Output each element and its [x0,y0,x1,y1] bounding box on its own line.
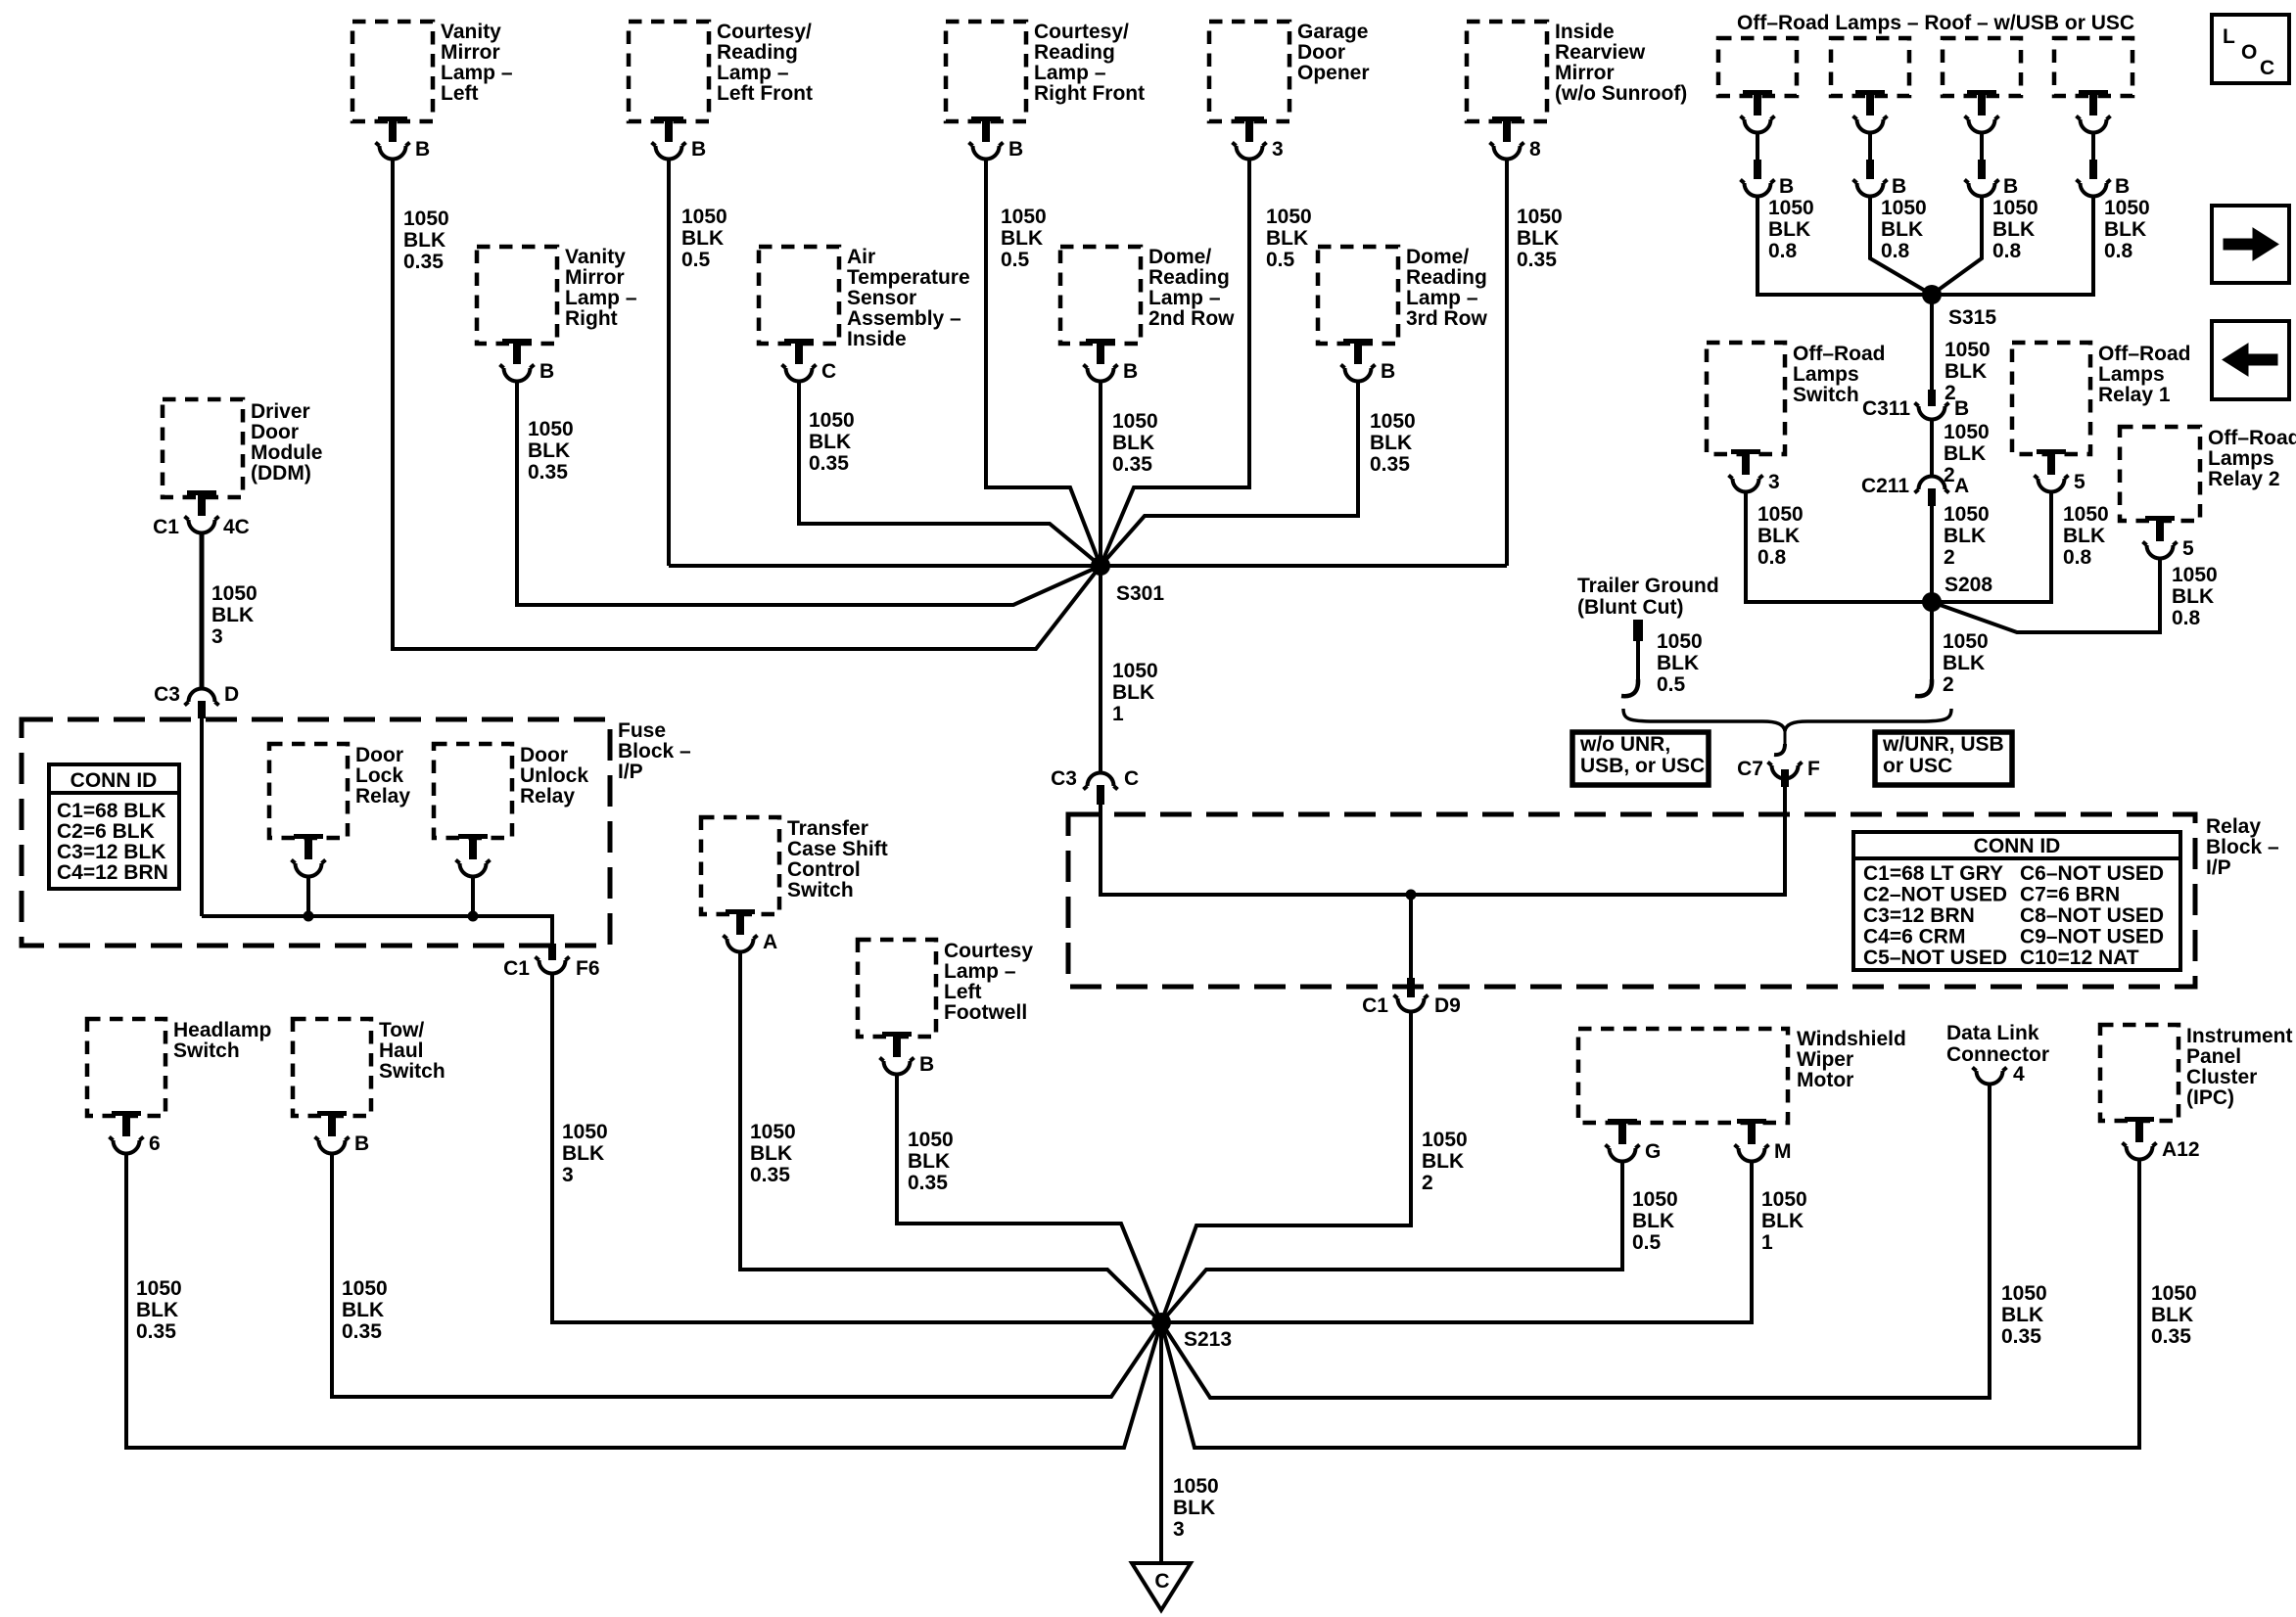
connector B of Courtesy/Reading Lamp - Right Front [969,116,1024,161]
junction dot door unlock [468,911,479,922]
wire label 1050 BLK 3 (fuse block) [562,1121,608,1186]
wire Air Temperature Sensor to S301 [799,383,1101,566]
connector B of Courtesy Lamp Left Footwell [880,1032,935,1076]
svg-text:M: M [1774,1140,1792,1163]
label Fuse Block - I/P [618,719,691,783]
wire label 1050 BLK 2 (C311-C211) [1944,421,1990,486]
wire label 1050 BLK 0.8 (roof lamp 3) [1992,197,2038,262]
wire Vanity Mirror Lamp Right to S301 [517,383,1101,605]
svg-text:Off–Road Lamps – Roof – w/USB: Off–Road Lamps – Roof – w/USB or USC [1737,12,2134,34]
svg-text:C1: C1 [1362,994,1388,1017]
svg-text:C3: C3 [154,683,180,706]
svg-text:1050BLK0.35: 1050BLK0.35 [1112,410,1158,476]
svg-text:5: 5 [2074,471,2085,493]
component Vanity Mirror Lamp - Left [352,21,513,121]
svg-text:S208: S208 [1945,574,1992,596]
component Tow/Haul Switch [293,1019,445,1116]
LOC legend box [2212,15,2289,83]
svg-text:B: B [1954,397,1969,420]
connector B of Tow/Haul Switch [315,1111,370,1155]
label Relay Block - I/P [2206,815,2279,879]
junction dot relay block [1406,890,1417,901]
svg-text:B: B [354,1132,369,1155]
svg-text:3: 3 [1768,471,1780,493]
inline connector C3 C [1051,767,1139,805]
svg-text:B: B [691,138,706,161]
connector B of Dome/Reading Lamp - 3rd Row [1341,339,1396,383]
svg-text:B: B [539,360,554,383]
svg-text:1050BLK0.35: 1050BLK0.35 [809,409,855,475]
component Driver Door Module (DDM) [163,399,323,497]
wire C1 D9 to S213 [1161,1013,1411,1322]
wire roof lamp 1 inline [1756,134,1759,161]
component Off-Road Roof Lamp 1 [1718,38,1797,96]
svg-text:1050BLK0.35: 1050BLK0.35 [2001,1282,2047,1348]
connector 4 of Data Link Connector [1973,1063,2026,1086]
component Off-Road Roof Lamp 2 [1831,38,1909,96]
component Off-Road Lamps Switch [1707,343,1886,454]
wire IPC A12 to S213 [1161,1161,2139,1448]
connector B of Vanity Mirror Lamp - Left [376,116,431,161]
splice S315 [1922,285,1996,329]
wire roof lamp 3 inline [1980,134,1984,161]
label Data Link Connector [1946,1022,2049,1066]
wire C3 C to relay block bus [1101,785,1785,895]
junction dot door lock [304,911,314,922]
wire fuse block ground bus [202,916,552,946]
connector of Door Unlock Relay [456,834,491,877]
wire S213 to ground triangle C [1159,1322,1163,1563]
connector 3 of Garage Door Opener [1233,116,1284,161]
wire S208 down to option brace [1915,611,1932,696]
connector of Door Lock Relay [292,834,326,877]
component Courtesy Lamp - Left Footwell [858,940,1033,1037]
wire Courtesy Lamp Left Front to S301 [667,161,671,566]
svg-text:O: O [2241,41,2257,64]
wire S315 to C311 [1930,295,1934,391]
wire label 1050 BLK 0.35 (IPC) [2151,1282,2197,1348]
wire label 1050 BLK 0.35 (vanity left) [403,208,449,273]
svg-text:CONN ID: CONN ID [1974,835,2061,857]
svg-text:S213: S213 [1184,1328,1232,1351]
svg-text:D9: D9 [1434,994,1461,1017]
svg-text:L: L [2223,25,2235,48]
component Dome/Reading Lamp - 2nd Row [1060,246,1235,344]
label Off-Road Lamps - Roof - w/USB or USC [1737,12,2134,34]
component Courtesy/Reading Lamp - Right Front [946,21,1145,121]
wire Dome Lamp 2nd Row to S301 [1099,383,1102,566]
connector C1 F6 of fuse block [503,944,599,980]
svg-text:B: B [415,138,430,161]
connector A12 of IPC [2123,1117,2200,1161]
svg-text:F: F [1807,758,1820,780]
svg-text:3: 3 [1272,138,1284,161]
wire label 1050 BLK 0.35 (headlamp) [136,1277,182,1343]
svg-text:C: C [1124,767,1139,790]
wire roof lamp 1 to S315 [1757,198,1932,295]
wire Off-Road Lamps Relay 2 to S208 [1932,560,2160,632]
svg-text:6: 6 [149,1132,161,1155]
relay block CONN ID table [1853,832,2180,970]
svg-text:CONN ID: CONN ID [70,769,158,792]
relay block dashed box [1068,814,2195,987]
connector B of Courtesy/Reading Lamp - Left Front [652,116,707,161]
wire label 1050 BLK 2 (S315) [1945,339,1991,404]
wire label 1050 BLK 3 (DDM) [211,582,258,648]
svg-text:S315: S315 [1948,306,1996,329]
svg-text:8: 8 [1529,138,1541,161]
right arrow box [2212,206,2289,283]
svg-text:C: C [2260,57,2274,79]
wire label 1050 BLK 0.5 (courtesy left front) [681,206,727,271]
svg-text:C: C [1154,1570,1169,1593]
connector G of Windshield Wiper Motor [1606,1119,1662,1163]
svg-text:C311: C311 [1862,397,1910,420]
wire Transfer Case Switch to S213 [740,953,1161,1322]
svg-text:4C: 4C [223,516,250,538]
connector (upper) of roof lamp 4 [2077,90,2111,133]
component Garage Door Opener [1209,21,1370,121]
svg-text:1050BLK0.35: 1050BLK0.35 [342,1277,388,1343]
ground reference triangle C [1132,1563,1191,1610]
wire label 1050 BLK 0.8 (off-road switch) [1757,503,1804,569]
connector B of roof lamp 4 [2077,160,2131,198]
wire blunt cut [1621,641,1638,696]
svg-text:1050BLK0.35: 1050BLK0.35 [136,1277,182,1343]
wire label 1050 BLK 0.8 (roof lamp 2) [1881,197,1927,262]
wire roof lamp 3 to S315 [1932,198,1982,295]
option box w/UNR USB or USC [1875,732,2012,785]
wire label 1050 BLK 0.35 (air temp) [809,409,855,475]
inline connector C7 F [1737,731,1820,787]
wire label 1050 BLK 0.8 (relay 1) [2063,503,2109,569]
component Door Lock Relay [269,744,410,838]
component Off-Road Lamps Relay 1 [2012,343,2191,454]
component Inside Rearview Mirror [1467,21,1687,121]
component Transfer Case Shift Control Switch [701,817,888,914]
wire C1 F6 to S213 [552,975,1156,1322]
wire roof lamp 2 to S315 [1870,198,1932,295]
svg-text:A12: A12 [2162,1138,2200,1161]
connector (upper) of roof lamp 3 [1965,90,1999,133]
fuse block CONN ID table [49,764,179,889]
svg-text:1050BLK0.35: 1050BLK0.35 [908,1129,954,1194]
wire Vanity Mirror Lamp Left to S301 [393,161,1101,649]
connector 5 of Off-Road Lamps Relay 1 [2035,449,2086,493]
wire S301 horizontal bus [669,564,1507,568]
wire roof lamp 4 inline [2091,134,2095,161]
component Off-Road Roof Lamp 4 [2054,38,2132,96]
wire Off-Road Lamps Relay 1 to S208 [1932,493,2051,602]
wire Headlamp Switch to S213 [126,1155,1161,1448]
splice S208 [1922,574,1992,612]
connector B of roof lamp 1 [1741,160,1795,198]
wire label 1050 BLK 3 (S213 down) [1173,1475,1219,1541]
svg-text:B: B [1779,175,1794,198]
svg-text:1050BLK0.35: 1050BLK0.35 [403,208,449,273]
svg-text:A: A [1954,475,1969,497]
wire label 1050 BLK 0.35 (dome 3rd row) [1370,410,1416,476]
svg-text:B: B [919,1053,934,1076]
connector C1 D9 of relay block [1362,978,1461,1017]
wire relay block to C1 D9 [1409,895,1413,978]
wire label 1050 BLK 1 [1112,660,1158,725]
wire Door Lock Relay to bus [306,878,310,916]
svg-text:1050BLK0.35: 1050BLK0.35 [1517,206,1563,271]
connector B of Dome/Reading Lamp - 2nd Row [1084,339,1139,383]
svg-text:B: B [1892,175,1906,198]
component Door Unlock Relay [434,744,588,838]
connector 6 of Headlamp Switch [110,1111,161,1155]
left arrow box [2212,321,2289,399]
component Vanity Mirror Lamp - Right [477,246,637,344]
svg-text:Data LinkConnector: Data LinkConnector [1946,1022,2049,1066]
svg-text:C3: C3 [1051,767,1077,790]
wire S301 to C3 C [1099,566,1102,771]
wire label 1050 BLK 0.35 (rearview) [1517,206,1563,271]
connector (upper) of roof lamp 1 [1741,90,1775,133]
wire label 1050 BLK 2 (below S208) [1943,630,1989,696]
connector B of roof lamp 2 [1853,160,1907,198]
wire label 1050 BLK 0.5 (blunt cut) [1657,630,1703,696]
wire Courtesy Lamp Footwell to S213 [897,1076,1161,1322]
wire label 1050 BLK 0.35 (transfer case) [750,1121,796,1186]
component Courtesy/Reading Lamp - Left Front [629,21,813,121]
wire Door Unlock Relay to bus [471,878,475,916]
component Off-Road Lamps Relay 2 [2120,427,2296,521]
svg-text:B: B [1123,360,1138,383]
wire roof lamp 4 to S315 [1932,198,2093,295]
component Headlamp Switch [87,1019,271,1116]
wire Wiper Motor M to S213 [1166,1163,1752,1322]
connector 3 of Off-Road Lamps Switch [1729,449,1780,493]
wire roof lamp 2 inline [1868,134,1872,161]
inline connector C311 B [1862,390,1969,420]
wire label 1050 BLK 0.5 (wiper G) [1632,1188,1678,1254]
wire label 1050 BLK 0.35 (dome 2nd row) [1112,410,1158,476]
connector B of Vanity Mirror Lamp - Right [500,339,555,383]
wire label 1050 BLK 0.35 (tow/haul) [342,1277,388,1343]
wire Courtesy Lamp Right Front to S301 [986,161,1101,566]
wire label 1050 BLK 0.35 (vanity right) [528,418,574,484]
connector 8 of Inside Rearview Mirror [1490,116,1542,161]
wire label 1050 BLK 0.8 (roof lamp 1) [1768,197,1814,262]
component Off-Road Roof Lamp 3 [1943,38,2021,96]
option box w/o UNR USB or USC [1572,732,1709,785]
svg-text:1050BLK0.35: 1050BLK0.35 [2151,1282,2197,1348]
connector (upper) of roof lamp 2 [1853,90,1888,133]
wire label 1050 BLK 0.35 (footwell) [908,1129,954,1194]
svg-text:C1: C1 [503,957,530,980]
wire Wiper Motor G to S213 [1161,1163,1622,1322]
component Air Temperature Sensor Assembly - Inside [759,246,970,350]
svg-text:C211: C211 [1861,475,1909,497]
svg-text:A: A [763,931,777,953]
svg-text:D: D [224,683,239,706]
svg-text:5: 5 [2182,537,2194,560]
wire label 1050 BLK 1 (wiper M) [1761,1188,1807,1254]
svg-text:1050BLK0.35: 1050BLK0.35 [528,418,574,484]
wire Data Link Connector to S213 [1161,1086,1990,1398]
svg-text:B: B [2115,175,2130,198]
wire C3 D into fuse block [200,718,204,916]
label Trailer Ground (Blunt Cut) [1577,575,1719,619]
svg-text:4: 4 [2013,1063,2025,1086]
wire Garage Door Opener to S301 [1101,161,1249,566]
wire label 1050 BLK 0.5 (courtesy right front) [1001,206,1047,271]
svg-text:C1: C1 [153,516,179,538]
wire DDM to C3 D [200,534,205,688]
component Instrument Panel Cluster (IPC) [2100,1025,2293,1121]
wire label 1050 BLK 2 (C211-S208) [1944,503,1990,569]
splice S301 [1091,556,1164,605]
connector C1 4C of DDM [153,490,250,538]
svg-text:B: B [1381,360,1395,383]
svg-text:C1=68 BLKC2=6 BLKC3=12 BLKC4=1: C1=68 BLKC2=6 BLKC3=12 BLKC4=12 BRN [57,800,168,884]
component Windshield Wiper Motor [1578,1028,1906,1123]
wire label 1050 BLK 2 (C1 D9) [1422,1129,1468,1194]
svg-text:1050BLK0.35: 1050BLK0.35 [750,1121,796,1186]
wire Inside Rearview Mirror to S301 [1505,161,1509,566]
inline connector C211 A [1861,475,1969,506]
wire Off-Road Lamps Switch to S208 [1746,493,1932,602]
connector B of roof lamp 3 [1965,160,2019,198]
svg-text:1050BLK0.35: 1050BLK0.35 [1370,410,1416,476]
svg-text:S301: S301 [1116,582,1164,605]
svg-text:F6: F6 [576,957,600,980]
splice S213 [1151,1313,1232,1351]
connector M of Windshield Wiper Motor [1735,1119,1792,1163]
svg-text:G: G [1645,1140,1661,1163]
svg-text:B: B [1008,138,1023,161]
wire label 1050 BLK 0.8 (relay 2) [2172,564,2218,629]
connector 5 of Off-Road Lamps Relay 2 [2143,516,2195,560]
wire Dome Lamp 3rd Row to S301 [1101,383,1358,566]
connector A of Transfer Case Switch [724,909,778,953]
blunt cut terminal [1633,620,1643,641]
inline connector C3 D [154,683,239,718]
wire label 1050 BLK 0.8 (roof lamp 4) [2104,197,2150,262]
wire Tow/Haul Switch to S213 [332,1155,1161,1397]
svg-text:C7: C7 [1737,758,1763,780]
wire C7 F into relay block [1783,787,1787,814]
connector C of Air Temperature Sensor [782,339,837,383]
option brace [1623,709,1951,731]
svg-text:DoorLockRelay: DoorLockRelay [355,744,410,808]
svg-text:B: B [2003,175,2018,198]
svg-text:C: C [821,360,836,383]
wire C211 to S208 [1930,506,1934,602]
wire label 1050 BLK 0.35 (data link) [2001,1282,2047,1348]
wire label 1050 BLK 0.5 (garage) [1266,206,1312,271]
wire C311 to C211 [1930,421,1934,475]
fuse block dashed box [22,719,610,946]
component Dome/Reading Lamp - 3rd Row [1318,246,1488,344]
